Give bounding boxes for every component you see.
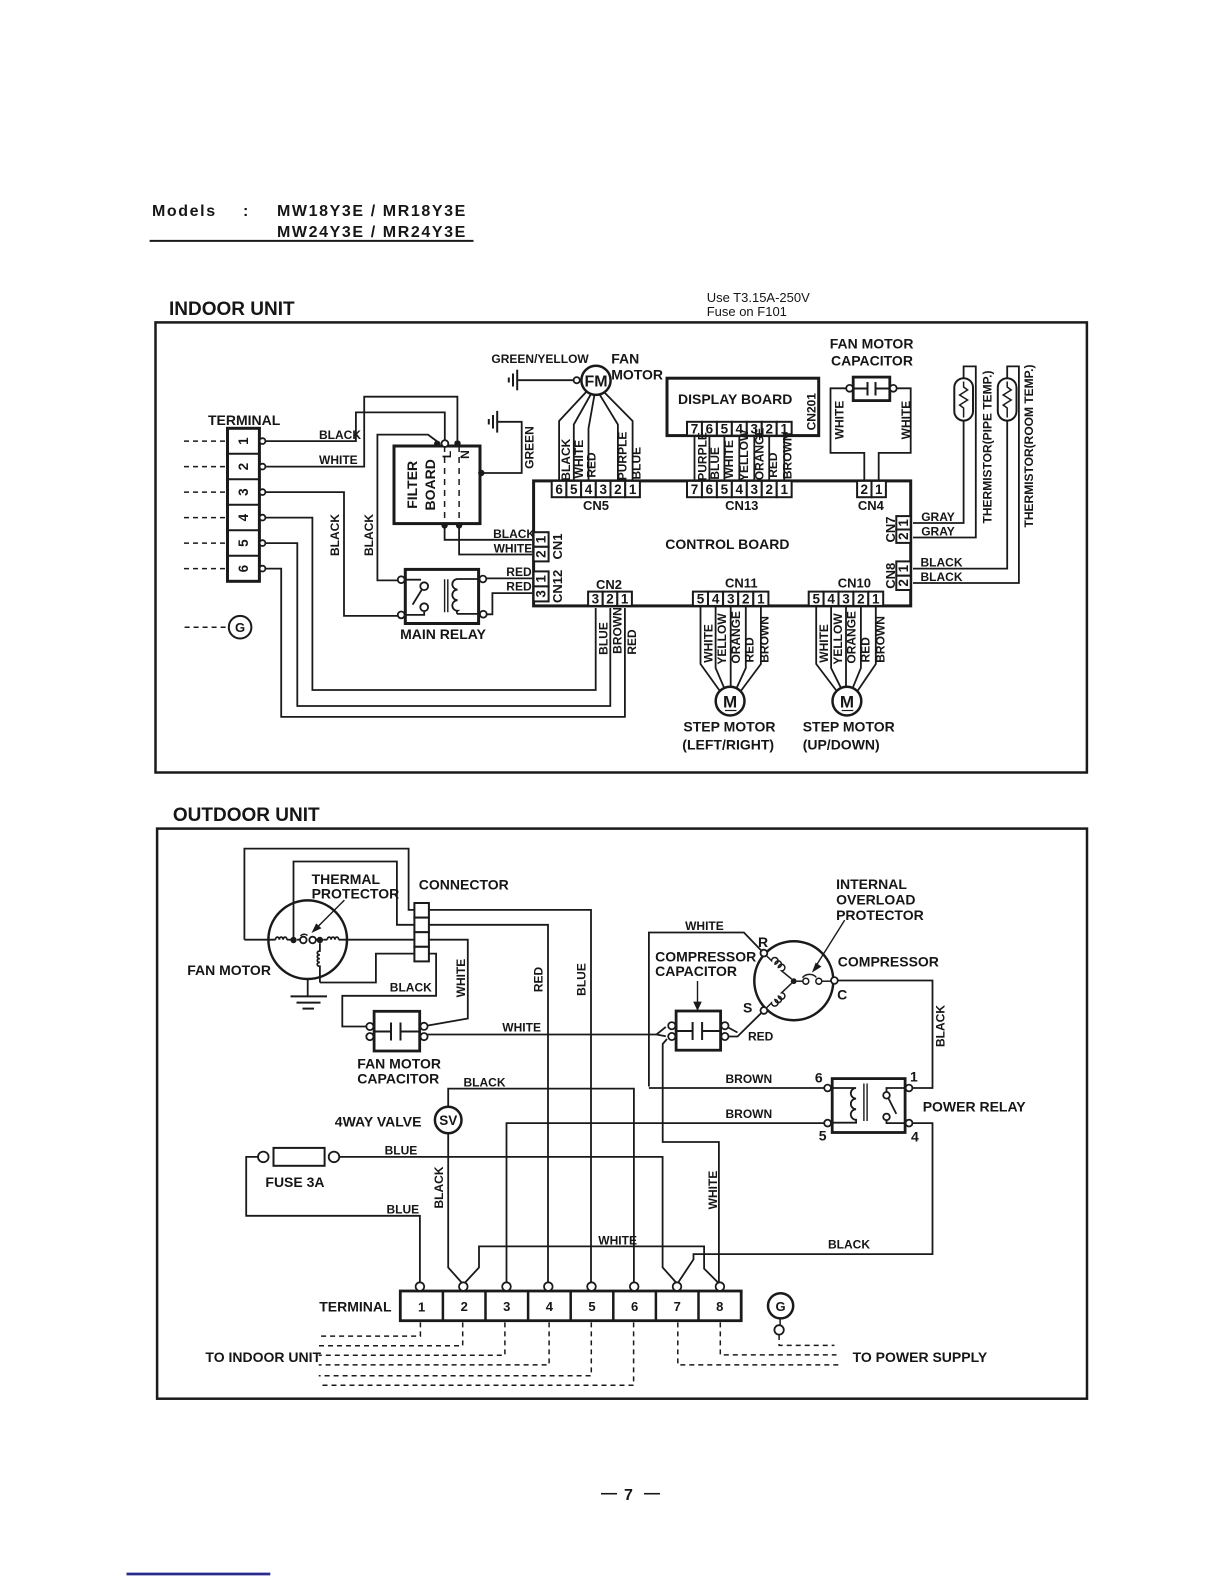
svg-text:WHITE: WHITE (685, 919, 724, 933)
wires CN10 to step motor up/down (816, 606, 876, 691)
svg-text:6: 6 (815, 1070, 823, 1086)
svg-text:CN2: CN2 (596, 577, 622, 592)
svg-text:WHITE: WHITE (502, 1021, 541, 1035)
svg-text:YELLOW: YELLOW (737, 429, 751, 481)
svg-text:7: 7 (674, 1299, 681, 1314)
compressor S contact (761, 1007, 768, 1014)
step motor up/down circle (833, 687, 862, 716)
svg-text:2: 2 (857, 591, 865, 606)
svg-text:6: 6 (236, 564, 251, 572)
wire RED main relay to CN12 pin3 (487, 593, 532, 614)
svg-text:BROWN: BROWN (873, 616, 887, 663)
svg-text:OVERLOAD: OVERLOAD (836, 892, 915, 908)
display board box (667, 378, 819, 435)
dashed line L inside filter board (444, 446, 446, 524)
connector CN11 cells (693, 592, 768, 606)
svg-text:FAN MOTOR: FAN MOTOR (830, 336, 914, 352)
power relay switch (883, 1088, 905, 1123)
display board pin cells 7..1 (687, 422, 792, 436)
fuse terminals (258, 1152, 269, 1163)
fan motor ground lead and ground symbol (291, 979, 328, 1009)
connector CN2 cells (588, 592, 632, 606)
svg-text:YELLOW: YELLOW (831, 613, 845, 665)
svg-text:BLACK: BLACK (319, 428, 361, 442)
svg-text:CN5: CN5 (583, 498, 609, 513)
svg-text:3: 3 (599, 482, 607, 497)
wire RED compressor capacitor right to S (728, 1013, 761, 1037)
svg-text:BROWN: BROWN (726, 1107, 773, 1121)
connector CN4 cells (857, 481, 886, 497)
main relay transformer core lines (445, 579, 448, 612)
svg-text:TERMINAL: TERMINAL (319, 1299, 392, 1315)
main relay switch (405, 580, 429, 615)
svg-text:GRAY: GRAY (921, 525, 955, 539)
svg-text:CN11: CN11 (725, 576, 758, 591)
connector CN13 cells (687, 481, 792, 497)
compressor circle (754, 941, 833, 1020)
svg-text:BLUE: BLUE (708, 447, 722, 480)
svg-text:CN13: CN13 (725, 498, 758, 513)
fan motor FM circle (581, 366, 610, 395)
svg-text:WHITE: WHITE (706, 1171, 720, 1210)
outdoor terminal block (400, 1291, 741, 1321)
wire GREEN ground to filter board (484, 422, 522, 473)
svg-text:WHITE: WHITE (454, 959, 468, 998)
svg-text:4: 4 (911, 1128, 919, 1144)
wire B fan motor dot to connector cell2 (294, 862, 415, 941)
dashed stub terminal8 to power supply (720, 1322, 836, 1355)
power relay contacts (824, 1085, 912, 1127)
filter board top contacts: dot, open circle, dot (434, 441, 440, 447)
svg-text:5: 5 (721, 421, 729, 436)
svg-text:CONTROL BOARD: CONTROL BOARD (665, 536, 789, 552)
wire BROWN power relay 5 to terminal3 (507, 1123, 825, 1282)
svg-text:BROWN: BROWN (726, 1072, 773, 1086)
svg-text:BLUE: BLUE (596, 622, 610, 655)
filter board right contact dot (478, 470, 484, 476)
svg-text:Use T3.15A-250V: Use T3.15A-250V (707, 290, 810, 305)
svg-text:BLUE: BLUE (387, 1203, 420, 1217)
svg-text:BLACK: BLACK (328, 514, 342, 556)
svg-text:CN12: CN12 (550, 570, 565, 603)
svg-text:1: 1 (418, 1300, 425, 1315)
wire BLACK terminal1 to filter board L (265, 412, 444, 441)
STEP MOTOR (LEFT/RIGHT) label (682, 719, 775, 753)
dashed stub terminal3 (319, 1322, 505, 1355)
svg-text:PURPLE: PURPLE (616, 432, 630, 481)
outdoor terminal digits 1-8 (418, 1299, 723, 1315)
svg-text:RED: RED (859, 637, 873, 663)
THERMAL PROTECTOR label (312, 871, 400, 902)
svg-text:5: 5 (588, 1299, 595, 1314)
wire connector cell4 loop to fan motor capacitor top-left (342, 954, 436, 1027)
svg-text:6: 6 (706, 482, 714, 497)
terminal contact circles (260, 438, 266, 571)
dashed line N inside filter board (458, 446, 460, 524)
svg-text:4: 4 (827, 591, 835, 606)
svg-text:1: 1 (534, 535, 549, 543)
svg-text:(LEFT/RIGHT): (LEFT/RIGHT) (682, 737, 774, 753)
dashed stub terminal5 (319, 1322, 592, 1375)
svg-text:CAPACITOR: CAPACITOR (357, 1071, 439, 1087)
svg-text:G: G (235, 620, 245, 635)
svg-text:2: 2 (861, 482, 869, 497)
svg-text:BLUE: BLUE (575, 963, 589, 996)
arrow from label to overload protector (813, 920, 844, 971)
wire terminal4 to CN2 pin3 (265, 518, 595, 690)
svg-text:TO INDOOR UNIT: TO INDOOR UNIT (205, 1349, 321, 1365)
models header text (152, 203, 467, 241)
svg-text::: : (243, 203, 250, 220)
svg-text:BLUE: BLUE (630, 447, 644, 480)
svg-text:WHITE: WHITE (817, 624, 831, 663)
svg-text:7: 7 (624, 1487, 635, 1504)
fan motor capacitor terminals (366, 1023, 427, 1040)
svg-text:STEP MOTOR: STEP MOTOR (803, 719, 895, 735)
svg-text:RED: RED (743, 637, 757, 663)
svg-text:—: — (644, 1485, 662, 1502)
thermal protector contacts in fan motor (290, 937, 296, 943)
svg-text:FUSE 3A: FUSE 3A (265, 1174, 324, 1190)
main relay contacts (398, 576, 487, 619)
svg-text:TERMINAL: TERMINAL (208, 412, 281, 428)
main relay coil (452, 579, 480, 614)
STEP MOTOR (UP/DOWN) label (803, 719, 895, 753)
svg-text:3: 3 (751, 482, 759, 497)
svg-text:WHITE: WHITE (494, 542, 533, 556)
capacitor symbol inside (853, 382, 890, 396)
outdoor unit outer box (157, 829, 1087, 1399)
connector CN10 cells (809, 592, 884, 606)
svg-text:N: N (458, 450, 472, 459)
dashed stub terminal4 (319, 1322, 549, 1365)
step motor left/right circle (716, 687, 745, 716)
svg-text:6: 6 (631, 1299, 638, 1314)
svg-text:1: 1 (910, 1069, 918, 1085)
svg-text:3: 3 (534, 590, 549, 598)
filter board box (394, 446, 480, 524)
wire WHITE terminal2 to terminal8 (464, 1246, 719, 1283)
FAN MOTOR label (611, 351, 663, 383)
wire A fan motor left end to connector cell1 (244, 849, 414, 940)
indoor terminal digits 1-6 (rotated) (236, 437, 251, 572)
indoor unit outer box (156, 322, 1087, 772)
svg-text:WHITE: WHITE (832, 401, 846, 440)
wire WHITE filter board to CN1 pin2 (459, 527, 532, 555)
svg-text:CN10: CN10 (838, 576, 871, 591)
svg-text:3: 3 (503, 1299, 510, 1314)
wire BLACK power relay 4 to terminal7 (678, 1123, 933, 1283)
svg-text:MOTOR: MOTOR (611, 367, 663, 383)
svg-text:FAN MOTOR: FAN MOTOR (187, 962, 271, 978)
svg-text:4: 4 (585, 482, 593, 497)
svg-text:SV: SV (439, 1113, 457, 1128)
outdoor terminal contact circles (416, 1282, 725, 1291)
connector CN8 cells (rotated digits) (896, 561, 910, 590)
svg-text:FAN: FAN (611, 351, 639, 367)
svg-text:ORANGE: ORANGE (752, 428, 766, 481)
wire BLUE connector cell1 to terminal5 (429, 910, 591, 1283)
fuse 3A body (274, 1148, 325, 1166)
svg-text:4: 4 (736, 482, 744, 497)
svg-text:PROTECTOR: PROTECTOR (836, 907, 924, 923)
svg-text:MW24Y3E / MR24Y3E: MW24Y3E / MR24Y3E (277, 224, 467, 241)
header underline (150, 240, 474, 242)
svg-text:—: — (601, 1485, 619, 1502)
main relay box (405, 569, 478, 623)
svg-text:2: 2 (534, 550, 549, 558)
svg-text:1: 1 (875, 482, 883, 497)
FAN MOTOR CAPACITOR label (830, 336, 914, 369)
power relay coil (831, 1088, 856, 1123)
svg-text:BLACK: BLACK (432, 1166, 446, 1208)
node G (indoor ground terminal) (185, 616, 252, 639)
thermistor pipe temp (capsule with zigzag) (954, 378, 973, 420)
arrow from label down to compressor capacitor (694, 981, 700, 1009)
capacitor symbol inside (374, 1023, 420, 1041)
outdoor fan motor circle (268, 900, 347, 979)
svg-text:2: 2 (606, 591, 614, 606)
page number (601, 1485, 662, 1504)
outdoor fan motor capacitor box (374, 1011, 420, 1051)
svg-text:WHITE: WHITE (319, 453, 358, 467)
svg-text:2: 2 (461, 1299, 468, 1314)
dashed stub terminal1 (319, 1322, 421, 1336)
svg-text:CN8: CN8 (883, 563, 898, 589)
connector CN1 cells (rotated digits) (534, 532, 549, 561)
svg-text:G: G (776, 1299, 786, 1314)
svg-text:RED: RED (585, 452, 599, 478)
decorative blue footer line (127, 1573, 271, 1576)
svg-text:1: 1 (780, 482, 788, 497)
svg-text:TO POWER SUPPLY: TO POWER SUPPLY (853, 1349, 988, 1365)
svg-text:INTERNAL: INTERNAL (836, 876, 907, 892)
svg-text:CAPACITOR: CAPACITOR (655, 963, 737, 979)
svg-text:BROWN: BROWN (758, 616, 772, 663)
svg-text:2: 2 (614, 482, 622, 497)
wire fan motor winding to connector cell4 (320, 954, 415, 983)
wire BLACK thermistor2 bottom lead to CN8 pin1 (913, 421, 1007, 569)
wire BLACK compressor C to power relay 1 (838, 981, 933, 1089)
capacitor terminals (846, 385, 853, 392)
COMPRESSOR CAPACITOR label (655, 949, 756, 980)
ground symbol (green wire) (489, 411, 497, 433)
svg-text:FAN MOTOR: FAN MOTOR (357, 1056, 441, 1072)
svg-text:5: 5 (236, 539, 251, 547)
svg-text:1: 1 (872, 591, 880, 606)
svg-text:WHITE: WHITE (598, 1234, 637, 1248)
svg-text:1: 1 (534, 575, 549, 583)
wire BLACK filter board to CN1 pin1 (445, 527, 532, 540)
power relay core lines (864, 1084, 867, 1122)
wire WHITE fan motor capacitor to compressor capacitor (428, 1027, 666, 1036)
dashed stub terminal2 (319, 1322, 463, 1345)
wire RED main relay to CN12 pin1 (486, 577, 532, 579)
INTERNAL OVERLOAD PROTECTOR label (836, 876, 924, 923)
svg-text:3: 3 (842, 591, 850, 606)
thermistor room temp (capsule with zigzag) (998, 378, 1017, 420)
svg-text:CN7: CN7 (883, 516, 898, 542)
svg-text:RED: RED (506, 580, 532, 594)
svg-text:4: 4 (712, 591, 720, 606)
connector stack (4 cells) (414, 903, 429, 961)
FILTER BOARD rotated text (404, 459, 438, 510)
svg-text:WHITE: WHITE (701, 624, 715, 663)
svg-text:2: 2 (896, 532, 911, 540)
dashed leads left of terminal (184, 441, 226, 568)
FAN MOTOR CAPACITOR label (outdoor) (357, 1056, 441, 1087)
svg-text:ORANGE: ORANGE (729, 611, 743, 664)
svg-text:RED: RED (531, 967, 545, 993)
4way valve SV circle (435, 1107, 462, 1134)
svg-text:ORANGE: ORANGE (845, 611, 859, 664)
wire WHITE compressor R to capacitor riser (649, 933, 762, 1087)
svg-text:CAPACITOR: CAPACITOR (831, 353, 913, 369)
wire WHITE connector cell3 to fan motor capacitor (428, 940, 468, 1026)
connector CN7 cells (rotated digits) (896, 516, 910, 543)
svg-text:L: L (440, 451, 454, 458)
svg-text:3: 3 (592, 591, 600, 606)
wire GRAY thermistor1 bottom lead to CN7 pin1 (913, 421, 964, 523)
power relay box (832, 1079, 905, 1133)
svg-text:BLACK: BLACK (934, 1005, 948, 1047)
svg-text:MAIN RELAY: MAIN RELAY (400, 626, 486, 642)
capacitor symbol inside (676, 1022, 721, 1040)
svg-text:RED: RED (625, 629, 639, 655)
svg-text:4: 4 (236, 513, 251, 521)
svg-text:DISPLAY BOARD: DISPLAY BOARD (678, 391, 792, 407)
svg-text:OUTDOOR UNIT: OUTDOOR UNIT (173, 805, 320, 826)
wire compressor capacitor left down to terminal8 riser (663, 1039, 719, 1283)
wire GREEN/YELLOW ground to fan motor (517, 379, 573, 381)
svg-text:BLACK: BLACK (390, 981, 432, 995)
dashed stub terminal7 to power supply (678, 1322, 839, 1365)
svg-text:2: 2 (236, 463, 251, 471)
wire BLUE fuse to terminal7 riser (339, 1157, 677, 1284)
dashed stub ground G to power supply (779, 1335, 834, 1345)
svg-text:GRAY: GRAY (921, 510, 955, 524)
power relay pin labels 6 1 5 4 (815, 1069, 919, 1145)
svg-text:(UP/DOWN): (UP/DOWN) (803, 737, 880, 753)
svg-text:5: 5 (812, 591, 820, 606)
filter board bottom contacts (441, 522, 447, 528)
svg-text:BLACK: BLACK (559, 438, 573, 480)
svg-text:THERMISTOR(ROOM TEMP.): THERMISTOR(ROOM TEMP.) (1022, 365, 1036, 528)
svg-text:RED: RED (766, 452, 780, 478)
wire terminal5 to CN2 pin2 (265, 543, 610, 706)
svg-text:BLACK: BLACK (493, 527, 535, 541)
svg-text:M: M (840, 693, 854, 712)
svg-text:5: 5 (697, 591, 705, 606)
svg-text:WHITE: WHITE (899, 401, 913, 440)
svg-text:Models: Models (152, 203, 217, 220)
svg-text:5: 5 (570, 482, 578, 497)
svg-text:BOARD: BOARD (422, 459, 438, 510)
dashed stub terminal6 (319, 1322, 634, 1385)
compressor capacitor terminals (668, 1022, 728, 1040)
wires CN11 to step motor left/right (701, 606, 761, 691)
svg-text:BLACK: BLACK (921, 556, 963, 570)
svg-text:RED: RED (748, 1030, 774, 1044)
svg-text:1: 1 (621, 591, 629, 606)
svg-text:GREEN: GREEN (523, 426, 537, 469)
svg-text:2: 2 (765, 421, 773, 436)
wire BROWN power relay 6 (649, 1087, 824, 1089)
control board outline (534, 481, 911, 606)
svg-text:7: 7 (691, 482, 699, 497)
fan motor wires to CN5 (559, 392, 633, 482)
svg-text:BROWN: BROWN (611, 607, 625, 654)
fan motor FM contact circle (574, 377, 580, 383)
fan motor main line with windings (244, 937, 414, 940)
svg-text:FM: FM (584, 373, 607, 390)
svg-text:RED: RED (506, 565, 532, 579)
wire filter-board third contact to main relay upper contact (377, 435, 437, 581)
svg-text:CN4: CN4 (858, 498, 885, 513)
wire WHITE capacitor right to CN4 pin1 (879, 388, 911, 481)
svg-text:CN201: CN201 (804, 393, 818, 431)
node G (outdoor ground) (768, 1293, 793, 1334)
svg-text:BLACK: BLACK (464, 1076, 506, 1090)
svg-text:THERMISTOR(PIPE TEMP.): THERMISTOR(PIPE TEMP.) (980, 371, 994, 524)
svg-text:S: S (743, 1000, 752, 1016)
svg-text:3: 3 (727, 591, 735, 606)
wire terminal3 to main relay lower contact (265, 492, 398, 616)
wire BLACK 4way valve down to terminal2 (448, 1133, 462, 1283)
svg-text:5: 5 (721, 482, 729, 497)
svg-text:PROTECTOR: PROTECTOR (312, 886, 400, 902)
compressor center dot (791, 978, 797, 984)
fan motor vertical winding (317, 943, 320, 982)
svg-text:INDOOR UNIT: INDOOR UNIT (169, 299, 295, 320)
fuse note text (707, 290, 810, 319)
compressor capacitor box (676, 1011, 721, 1050)
svg-text:2: 2 (765, 482, 773, 497)
internal overload protector contacts (797, 980, 803, 982)
svg-text:BLACK: BLACK (921, 570, 963, 584)
wire BLACK 4way valve to terminal6 (448, 1089, 634, 1283)
compressor R contact (761, 950, 768, 957)
svg-text:GREEN/YELLOW: GREEN/YELLOW (491, 352, 589, 366)
wire BLUE fuse left to terminal1 (246, 1157, 420, 1283)
svg-text:POWER RELAY: POWER RELAY (923, 1099, 1027, 1115)
compressor winding R to center (766, 956, 791, 980)
svg-text:1: 1 (896, 564, 911, 572)
svg-text:1: 1 (236, 437, 251, 445)
svg-text:YELLOW: YELLOW (715, 613, 729, 665)
svg-text:6: 6 (555, 482, 563, 497)
wires display board to CN13 (695, 436, 785, 481)
compressor winding S to center (766, 983, 791, 1008)
svg-text:COMPRESSOR: COMPRESSOR (838, 954, 939, 970)
indoor terminal block (228, 428, 260, 581)
svg-text:5: 5 (819, 1127, 827, 1143)
svg-text:3: 3 (236, 488, 251, 496)
wire GRAY thermistor1 top lead to CN7 pin2 (913, 366, 976, 537)
wire BLACK thermistor2 top lead to CN8 pin2 (913, 366, 1019, 583)
svg-text:CONNECTOR: CONNECTOR (419, 877, 509, 893)
svg-text:M: M (723, 693, 737, 712)
svg-text:STEP MOTOR: STEP MOTOR (683, 719, 775, 735)
connector CN12 cells (rotated digits) (534, 571, 549, 601)
svg-text:2: 2 (896, 579, 911, 587)
svg-text:BLUE: BLUE (385, 1144, 418, 1158)
compressor C contact (831, 977, 838, 984)
svg-text:WHITE: WHITE (722, 440, 736, 479)
svg-text:FILTER: FILTER (404, 461, 420, 509)
svg-text:CN1: CN1 (550, 533, 565, 559)
wire RED connector cell2 to terminal4 (429, 925, 548, 1283)
